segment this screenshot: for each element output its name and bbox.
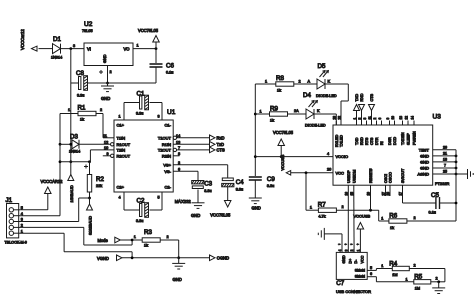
svg-text:TxD: TxD [217,142,225,147]
svg-text:R1: R1 [78,105,86,112]
wire R9 left [255,113,269,115]
svg-text:CTS: CTS [217,148,225,153]
diode D3 1N914 [69,134,80,154]
svg-text:U3: U3 [433,114,442,121]
svg-text:GND: GND [101,96,110,101]
svg-text:11: 11 [103,134,107,138]
wire J1.4 [20,215,60,217]
svg-text:3V3OUT: 3V3OUT [401,168,405,183]
wire J1.2 to Mode node [20,227,132,245]
svg-text:TBLOCK-M-6: TBLOCK-M-6 [5,241,27,245]
svg-text:1: 1 [134,235,136,239]
svg-text:U1: U1 [167,109,176,116]
diode D1 1N914 [51,36,62,60]
terminal 8192BAUD [87,198,93,235]
svg-text:2: 2 [350,249,354,251]
svg-text:25: 25 [443,170,447,174]
svg-text:R8: R8 [276,75,284,82]
wire node3 rail down to C8 [71,49,79,83]
wire C5 right to rail [440,202,458,205]
svg-text:GND: GND [103,54,107,63]
capacitor C3 3.3u [192,181,213,193]
svg-text:VCCCar12: VCCCar12 [20,29,25,50]
svg-text:1k: 1k [144,244,148,248]
wire J1.5 to VCCCAR12 [20,194,48,210]
wire C1 pins 1,3 [124,103,162,121]
power VCCCAR12 mid [41,179,64,194]
capacitor C5 0.1u [429,192,440,215]
rail junctions [254,113,257,158]
svg-text:9: 9 [107,152,109,156]
svg-text:3: 3 [344,249,348,251]
svg-text:TXD: TXD [355,94,359,102]
svg-text:1: 1 [68,108,70,112]
svg-text:7: 7 [444,164,446,168]
terminal CTS [210,147,225,153]
bubble R1OUT [111,143,114,146]
node R5-2 [431,280,440,283]
svg-text:CTS: CTS [370,137,374,145]
svg-text:D5: D5 [318,63,326,70]
svg-text:13: 13 [176,140,180,144]
wire D5 to TXLED [325,84,348,125]
wire T2OUT to CTS [173,148,209,151]
terminal VGND input [97,255,122,261]
IC U1 MAX232 [114,109,191,204]
svg-text:VCCIO: VCCIO [336,154,349,159]
wire J1.1 to VGND line [20,233,132,258]
wire 3V3OUT to C5 [403,196,436,203]
ground left of USB [318,228,324,240]
wire R1-1 rail [60,114,78,145]
svg-text:GND: GND [252,206,261,211]
wire R1IN to TxD [173,143,209,145]
svg-text:R2OUT: R2OUT [117,153,131,158]
svg-text:6: 6 [178,167,180,171]
svg-text:3.3u: 3.3u [77,94,84,98]
svg-text:13: 13 [399,116,403,120]
regulator U2 78L05 [82,21,133,66]
svg-text:VCCUSB: VCCUSB [281,154,285,170]
wire R7-2 / RESET# net [336,196,378,212]
ground below C3 [191,190,205,219]
wire R8 left rail [255,84,275,176]
ground below U2 [101,83,114,101]
svg-text:19: 19 [367,192,371,196]
terminals TXD RXD CTS above U3 [354,93,375,120]
svg-text:D+: D+ [348,259,352,264]
svg-text:C2-: C2- [165,185,172,190]
svg-text:VI: VI [87,47,91,52]
svg-text:TXDEN: TXDEN [401,132,405,145]
svg-text:C1+: C1+ [117,123,125,128]
svg-text:1M: 1M [415,286,420,290]
wire R3-2 down [160,240,180,259]
svg-text:14: 14 [410,116,414,120]
svg-text:12: 12 [104,140,108,144]
svg-text:RXD: RXD [360,137,364,145]
wire C2 pins 4,5 [124,192,162,210]
LED D5 DIODE-LED [316,63,337,98]
svg-text:C3: C3 [204,181,212,188]
svg-text:4: 4 [119,196,121,200]
svg-text:1: 1 [381,217,383,221]
svg-text:6: 6 [370,272,372,276]
svg-text:TXLED: TXLED [340,135,344,147]
connector C7 USB CONNECTOR [336,249,376,293]
svg-text:R2: R2 [96,176,104,183]
svg-text:1: 1 [356,249,360,251]
wire J1.3 to 8192BAUD node [20,198,90,222]
svg-text:C2+: C2+ [117,185,125,190]
wire D3 cathode to R1OUT [79,143,111,145]
wire U2 GND pin 2 [106,66,112,85]
power VCCCar12 [20,29,53,51]
wire T2IN [90,150,114,162]
power VCCUSB up arrow [354,214,371,253]
svg-text:RI: RI [380,141,384,145]
svg-text:RxD: RxD [217,136,225,141]
svg-text:17: 17 [399,192,403,196]
capacitor C1 3.3u [136,91,149,116]
svg-text:27: 27 [382,192,386,196]
svg-text:DSR: DSR [388,137,392,145]
svg-text:2: 2 [110,70,112,74]
terminal Mode input [98,237,121,243]
connector J1 TBLOCK-M-6 [5,197,27,245]
svg-text:2: 2 [178,161,180,165]
svg-text:R2IN: R2IN [162,153,171,158]
power VCC78L05 down at C4 [210,187,231,218]
ground below C9 [249,180,262,211]
resistor R5 1M [406,274,438,291]
terminal RxD [210,135,225,141]
svg-text:TXD: TXD [355,137,359,145]
svg-text:D4: D4 [303,92,311,99]
svg-text:OSCI: OSCI [384,174,388,183]
svg-text:2: 2 [167,235,169,239]
svg-text:2: 2 [414,264,416,268]
svg-text:GND: GND [420,153,429,158]
svg-text:PWREN: PWREN [413,131,417,145]
svg-text:1: 1 [310,206,312,210]
svg-text:21: 21 [443,151,447,155]
resistor R8 1k [265,75,311,93]
svg-text:RXLED: RXLED [335,134,339,147]
wire Shield6 to R5 [376,277,413,282]
svg-text:0.1u: 0.1u [166,71,173,75]
resistor R3 1k [142,229,168,248]
svg-text:VCC: VCC [336,171,345,176]
svg-text:8192BAUD: 8192BAUD [89,216,93,235]
capacitor C6 0.1u [108,49,175,83]
capacitor C9 [249,176,276,188]
resistor R9 1k [260,106,300,123]
svg-text:1: 1 [406,277,408,281]
svg-text:VCC: VCC [360,255,364,263]
wire R9-2 to D4 [288,113,307,115]
svg-text:18: 18 [443,157,447,161]
wire T1OUT to RxD [173,136,209,139]
wire Shield5 to R4 [376,269,392,271]
svg-text:1: 1 [119,115,121,119]
ground below R3 [172,258,185,282]
IC U3 FT232R [333,114,450,187]
ground right of U3 [456,169,473,179]
svg-text:22: 22 [337,116,341,120]
svg-text:1: 1 [137,44,139,48]
svg-text:15: 15 [350,192,354,196]
wire rail x71 down [69,83,72,163]
svg-text:CTS: CTS [370,93,374,101]
svg-text:DTR: DTR [375,137,379,145]
svg-text:2: 2 [299,80,301,84]
terminal TxD [210,142,225,148]
svg-text:1k: 1k [270,119,274,123]
pin R2IN stub [173,155,179,157]
wire VGND line [122,256,210,259]
svg-text:1: 1 [265,80,267,84]
svg-text:VO: VO [123,47,130,52]
svg-text:MAX232: MAX232 [175,199,192,204]
svg-text:5: 5 [370,266,372,270]
tiny net arrows on USB wires [338,243,360,246]
svg-text:4.7k: 4.7k [318,215,325,219]
svg-text:3.3u: 3.3u [136,112,143,116]
LED D4 DIODE-LED [303,92,326,128]
capacitor C8 3.3u [76,70,108,98]
svg-text:1k: 1k [80,118,84,122]
wire R4-2 to R5-2 node [409,269,445,282]
svg-text:C8: C8 [76,70,84,77]
svg-text:GND: GND [420,166,429,171]
svg-text:D1: D1 [53,36,61,43]
svg-text:FT232R: FT232R [435,181,450,186]
svg-text:16: 16 [344,192,348,196]
svg-text:1M: 1M [392,273,397,277]
svg-text:C9: C9 [267,176,275,183]
svg-text:VCCCAR12: VCCCAR12 [41,179,64,184]
wire D4 to RXLED [314,114,336,125]
svg-text:DCD: DCD [393,137,397,145]
wire R6-2 right [407,220,456,222]
resistor R1 1k [68,105,102,122]
svg-text:28: 28 [386,192,390,196]
wire U2 VO node 1 [133,44,157,50]
svg-text:2: 2 [342,205,344,209]
svg-text:10: 10 [391,116,395,120]
svg-text:C4: C4 [236,179,244,186]
svg-text:VCC78L05: VCC78L05 [210,213,231,218]
svg-text:T2IN: T2IN [117,147,126,152]
wire VCCUSB to R7 [306,173,318,210]
wire net y162 [60,160,91,168]
resistor R2 22k [87,162,104,200]
wire USBDP down [347,196,349,252]
ground below R5 [432,282,445,294]
wire Mode to R3 [120,235,142,241]
svg-text:8: 8 [178,152,180,156]
svg-text:0.1u: 0.1u [429,211,436,215]
svg-text:U2: U2 [84,21,93,28]
power VCC78L05 mid-right [273,130,294,158]
svg-text:AGND: AGND [417,172,429,177]
svg-text:1N914: 1N914 [51,56,62,60]
svg-text:3.3u: 3.3u [136,219,143,223]
svg-text:C1-: C1- [165,123,172,128]
capacitor C4 3.3u [222,178,244,192]
wire VS+ to C4 [173,165,228,178]
svg-text:4: 4 [338,249,342,251]
svg-text:26: 26 [443,145,447,149]
svg-text:R1IN: R1IN [162,142,171,147]
U1 pin numbers [103,115,180,200]
svg-text:T1OUT: T1OUT [158,135,172,140]
resistor R7 4.7k [310,202,344,219]
svg-text:RXD: RXD [360,93,364,101]
svg-text:2: 2 [414,216,416,220]
svg-text:TEST: TEST [419,147,430,152]
svg-text:VCC78L05: VCC78L05 [273,130,294,135]
wire VCCIO net [255,152,333,157]
svg-text:GND: GND [191,213,200,218]
svg-text:3.3u: 3.3u [236,188,243,192]
wire VS- to C3 [173,171,198,180]
svg-text:GND: GND [342,255,346,264]
svg-text:12: 12 [404,116,408,120]
capacitor C2 3.3u [136,198,149,224]
svg-text:6: 6 [378,118,382,120]
wire rail x60 down to J1.4 [59,144,62,215]
power VCC78L05 top [138,28,159,49]
U3 top pin labels [333,116,417,147]
svg-text:2: 2 [100,108,102,112]
svg-text:GND: GND [420,159,429,164]
wire R8-2 to D5 [294,83,317,85]
svg-text:22k: 22k [96,184,102,188]
svg-text:VCCUSB: VCCUSB [354,214,371,219]
resistor R6 1k [381,213,415,230]
svg-text:GND: GND [173,277,182,282]
bubble R2OUT stub [103,154,114,157]
svg-text:T2OUT: T2OUT [158,147,172,152]
svg-text:VCC78L05: VCC78L05 [138,28,159,33]
svg-text:3.3u: 3.3u [204,189,211,193]
svg-text:16XBAUD: 16XBAUD [70,185,74,203]
svg-text:J1: J1 [6,197,13,204]
svg-text:5: 5 [158,196,160,200]
svg-text:Shield: Shield [355,275,365,279]
svg-text:3: 3 [363,118,367,120]
svg-text:2A: 2A [294,109,299,113]
svg-text:Mode: Mode [98,238,109,243]
svg-text:7: 7 [178,146,180,150]
svg-text:3: 3 [158,115,160,119]
svg-text:VS-: VS- [164,169,171,174]
svg-text:VGND: VGND [97,256,109,261]
svg-text:10: 10 [104,146,108,150]
svg-text:USBDP: USBDP [347,170,351,183]
svg-text:USBDM: USBDM [353,170,357,183]
wire down to R6 [379,210,389,221]
svg-text:T1IN: T1IN [117,135,126,140]
svg-text:20: 20 [327,168,331,172]
svg-text:9: 9 [386,118,390,120]
svg-text:3.3u: 3.3u [267,184,274,188]
svg-text:RTS: RTS [365,137,369,145]
svg-text:DIODE-LED: DIODE-LED [305,124,326,128]
svg-text:R1OUT: R1OUT [117,142,131,147]
svg-text:OSCO: OSCO [389,172,393,183]
terminal 16XBAUD [68,162,74,203]
wire node 3 [61,44,85,50]
svg-text:2: 2 [436,277,438,281]
svg-text:DIODE-LED: DIODE-LED [316,94,337,98]
wire R1-2 to T1IN [96,114,114,138]
terminal OGND output [210,255,230,261]
svg-text:RESET#: RESET# [369,168,373,183]
svg-text:1: 1 [260,110,262,114]
svg-text:3: 3 [73,44,75,48]
svg-text:Shield: Shield [355,268,365,272]
svg-text:23: 23 [333,116,337,120]
svg-text:1: 1 [381,264,383,268]
svg-text:2: 2 [373,118,377,120]
svg-text:1k: 1k [277,89,281,93]
svg-text:OGND: OGND [217,256,229,261]
node D3 anode [59,143,72,146]
svg-text:1k: 1k [390,226,394,230]
U3 bottom pin labels [344,168,405,196]
svg-text:R7: R7 [318,202,326,209]
svg-text:R3: R3 [144,229,152,236]
svg-text:4: 4 [327,152,329,156]
wire USBDM down [353,196,355,252]
svg-text:SLEEP: SLEEP [407,133,411,145]
svg-text:C7: C7 [336,280,344,287]
svg-text:USB CONNECTOR: USB CONNECTOR [336,289,371,294]
U3 right pins + rail [433,145,458,221]
power VCCUSB left arrow + VCC net [281,154,333,175]
resistor R4 1M [381,261,415,278]
svg-text:78L05: 78L05 [82,29,93,33]
wire USB GND to left ground [324,234,342,253]
svg-text:C6: C6 [166,63,174,70]
svg-text:VS+: VS+ [163,162,171,167]
